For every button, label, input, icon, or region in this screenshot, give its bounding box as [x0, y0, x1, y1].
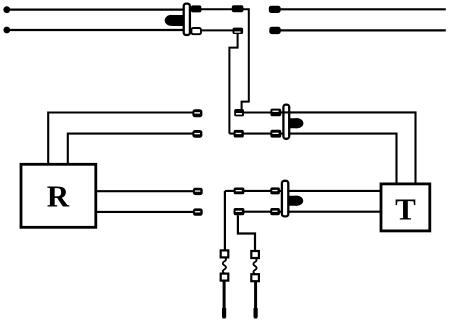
plug P3 (inserted in jack J3, pointing right): [289, 196, 303, 206]
box T (transmitter): [381, 184, 430, 231]
wire row 3 sleeve tail to fuse string 2: [238, 215, 255, 251]
fuse F1 lower cap: [221, 274, 229, 281]
terminal A2: [192, 130, 202, 138]
heat coil F1 zigzag: [223, 257, 226, 273]
box R (receiver): [21, 164, 96, 227]
terminal B1 (right trunk line 1): [269, 6, 281, 13]
wire R top lead 1 (to row 2 tip terminal): [48, 113, 192, 165]
wire row 2 sleeve to cord corner: [289, 134, 397, 184]
svg-text:T: T: [395, 192, 416, 227]
wire row 2 tip to cord corner: [281, 112, 416, 183]
node dot left line L2: [3, 27, 10, 34]
jack J3 frame bar: [282, 181, 288, 217]
terminal A4: [193, 208, 203, 215]
plug P1 (inserted in jack J1, pointing left): [168, 15, 184, 26]
contact spring J1 sleeve (hollow): [191, 28, 201, 34]
contact K8 (row 3 tip, at jack J3): [270, 187, 280, 194]
wire trunk line 1 top-right: [280, 8, 446, 10]
fuse F1 upper cap: [221, 250, 229, 257]
wire R right lead 1 (to row 3 tip terminal): [96, 190, 193, 192]
heat coil F2 zigzag: [253, 258, 256, 274]
wire fuse string 1 to ground lead: [223, 281, 226, 319]
wire J1 sleeve to break contact: [201, 29, 233, 31]
jack J1 frame bar: [184, 4, 190, 35]
wire line L1 top-left: [6, 9, 184, 11]
wire row 3 sleeve jack to T: [289, 211, 381, 213]
contact spring J1 tip (solid): [191, 5, 201, 12]
wire row 3 sleeve: [234, 211, 282, 213]
contact K5 (row 2 sleeve, left): [234, 130, 244, 138]
svg-text:R: R: [47, 179, 70, 214]
contact K6 (row 2 sleeve, at jack J2): [270, 130, 281, 138]
contact K2 (sleeve branch): [233, 28, 244, 34]
wire trunk line 2 top-right: [280, 29, 446, 31]
contact K10 (row 3 sleeve, at jack J3): [270, 208, 280, 215]
wire line L2 top-left: [6, 29, 184, 31]
terminal A3: [193, 188, 203, 195]
wire R top lead 2 (to row 2 sleeve terminal): [68, 134, 193, 165]
wire row 3 tip (from fuse string corner to jack J3 and T): [225, 190, 282, 192]
fuse F2 upper cap: [251, 251, 259, 258]
wire row 2 sleeve: [229, 133, 283, 135]
contact K7 (row 3 tip, left): [234, 188, 245, 195]
jack J2 frame bar: [283, 105, 289, 139]
wire R right lead 2 (to row 3 sleeve terminal): [96, 211, 193, 213]
node dot left line L1: [3, 6, 10, 13]
terminal B2 (right trunk line 2): [269, 27, 280, 34]
contact K1 (tip branch, solid): [232, 5, 244, 12]
wire row 3 tip jack to T: [289, 190, 381, 192]
wire K1 to corner and down (tip lead): [242, 9, 249, 109]
wire row 2 tip: [244, 111, 271, 113]
wire K2 staircase down to row 2 sleeve: [229, 34, 237, 134]
contact K9 (row 3 sleeve, left): [234, 208, 245, 215]
fuse F2 lower cap: [251, 274, 259, 281]
terminal A1: [192, 109, 202, 117]
wire J1 tip to break contact: [201, 8, 232, 10]
contact K3 (row 2 tip, left): [234, 109, 244, 116]
wire fuse string 1 drop: [224, 191, 226, 251]
wire fuse string 2 to ground lead: [254, 281, 257, 318]
contact K4 (row 2 tip, at jack J2): [270, 109, 281, 117]
plug P2 (inserted in jack J2, pointing right): [289, 118, 303, 128]
